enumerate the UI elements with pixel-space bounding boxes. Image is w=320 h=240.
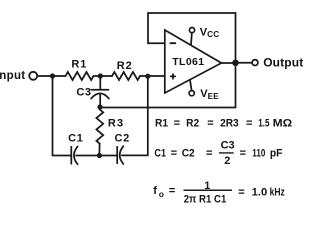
svg-text:o: o <box>159 189 164 199</box>
op-amp U1 TL061 triangle <box>165 30 222 93</box>
svg-text:CC: CC <box>207 30 219 39</box>
label R1 <box>71 58 87 70</box>
svg-text:1.0: 1.0 <box>252 187 268 199</box>
svg-text:C3: C3 <box>76 87 91 99</box>
VEE terminal <box>189 91 194 96</box>
svg-text:C2: C2 <box>115 132 130 144</box>
minus symbol inverting input <box>170 42 175 44</box>
svg-text:R2: R2 <box>186 118 199 130</box>
label Output <box>263 56 303 70</box>
svg-text:2π R1 C1: 2π R1 C1 <box>184 194 227 206</box>
svg-text:=: = <box>174 118 180 130</box>
svg-text:=: = <box>207 118 213 130</box>
svg-text:pF: pF <box>270 148 283 160</box>
label VEE <box>200 88 219 101</box>
node A <box>50 73 55 78</box>
resistor R1 <box>66 72 94 80</box>
label C3 <box>76 87 91 99</box>
wire node M down to C3 <box>99 76 101 90</box>
formula R1 = R2 = 2R3 = 1.5 Mohm <box>155 118 292 130</box>
svg-text:=: = <box>240 148 246 160</box>
bottom junction node <box>97 153 102 158</box>
wire R2 to node B <box>140 75 147 77</box>
wire junction X to output branch <box>102 65 236 108</box>
node M <box>98 73 103 78</box>
wire node B to op-amp plus input <box>149 75 165 77</box>
wire C1 to bottom junction <box>76 155 98 157</box>
plus symbol non-inverting input <box>171 74 176 79</box>
wire node A to R1 <box>54 75 66 77</box>
wire node M to R2 <box>102 75 113 77</box>
svg-text:110: 110 <box>252 148 265 160</box>
svg-text:C3: C3 <box>221 139 235 151</box>
svg-text:Input: Input <box>0 70 25 82</box>
svg-text:2: 2 <box>224 155 230 167</box>
formula fo = 1 over 2 pi R1 C1 = 1.0 kHz <box>153 180 285 205</box>
svg-text:TL061: TL061 <box>172 56 204 68</box>
fraction bar 1 over 2 pi R1 C1 <box>184 189 233 191</box>
svg-text:C2: C2 <box>182 148 195 160</box>
capacitor C1 <box>71 146 77 164</box>
svg-text:C1: C1 <box>68 132 83 144</box>
svg-text:=: = <box>238 186 244 198</box>
resistor R2 <box>112 72 140 80</box>
svg-text:1.5: 1.5 <box>258 118 269 130</box>
svg-text:f: f <box>153 185 157 197</box>
wire VEE to op-amp <box>190 80 192 90</box>
svg-text:=: = <box>169 185 175 197</box>
capacitor C3 <box>91 90 109 99</box>
label C1 <box>68 132 83 144</box>
svg-text:R1: R1 <box>155 118 168 130</box>
svg-text:R1: R1 <box>71 58 87 70</box>
capacitor C2 <box>117 146 123 164</box>
input terminal <box>29 72 37 80</box>
label R2 <box>117 60 133 72</box>
wire output node to output terminal <box>238 62 251 64</box>
resistor R3 <box>96 110 103 144</box>
wire node A down to bottom rail <box>53 76 71 156</box>
output node <box>232 60 239 67</box>
VCC terminal <box>189 28 194 33</box>
wire R3 to bottom junction <box>98 144 100 154</box>
fraction bar C3 over 2 <box>219 152 234 154</box>
wire input to node A <box>38 75 51 77</box>
label VCC <box>200 26 220 39</box>
svg-text:R3: R3 <box>108 117 124 129</box>
svg-text:=: = <box>171 148 177 160</box>
wire C2 to node B vertical <box>122 78 148 156</box>
svg-text:Output: Output <box>263 56 303 70</box>
feedback wire output to inverting input <box>148 13 236 62</box>
output terminal <box>252 60 258 66</box>
junction X node <box>97 104 102 109</box>
svg-text:MΩ: MΩ <box>273 118 293 130</box>
wire VCC to op-amp <box>190 33 193 45</box>
wire R1 to node M <box>94 75 100 77</box>
label TL061 <box>172 56 204 68</box>
wire bottom junction to C2 <box>101 155 116 157</box>
svg-text:=: = <box>206 148 212 160</box>
svg-text:=: = <box>246 118 252 130</box>
wire op-amp apex to output node <box>221 62 234 64</box>
wire C3 to junction X <box>99 95 101 106</box>
formula C1 = C2 = C3/2 = 110 pF <box>154 139 282 167</box>
svg-text:kHz: kHz <box>270 186 286 198</box>
node B <box>145 74 150 79</box>
label C2 <box>115 132 130 144</box>
svg-text:EE: EE <box>208 92 220 101</box>
label R3 <box>108 117 124 129</box>
svg-text:C1: C1 <box>154 148 166 160</box>
svg-text:R2: R2 <box>117 60 133 72</box>
label Input <box>0 70 25 82</box>
svg-text:2R3: 2R3 <box>220 118 239 130</box>
